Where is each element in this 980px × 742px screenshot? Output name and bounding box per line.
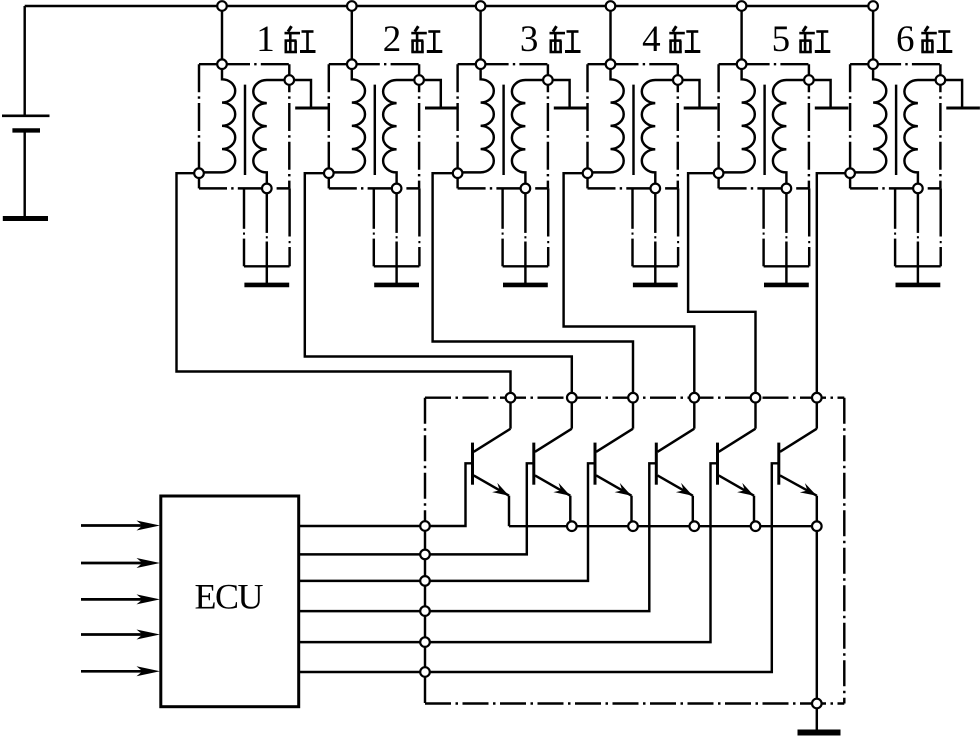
svg-text:ECU: ECU [195, 576, 264, 616]
svg-text:1: 1 [256, 19, 275, 60]
svg-text:3: 3 [520, 19, 539, 60]
svg-text:2: 2 [383, 19, 402, 60]
svg-text:4: 4 [642, 19, 661, 60]
svg-text:5: 5 [772, 19, 791, 60]
svg-text:6: 6 [896, 19, 915, 60]
